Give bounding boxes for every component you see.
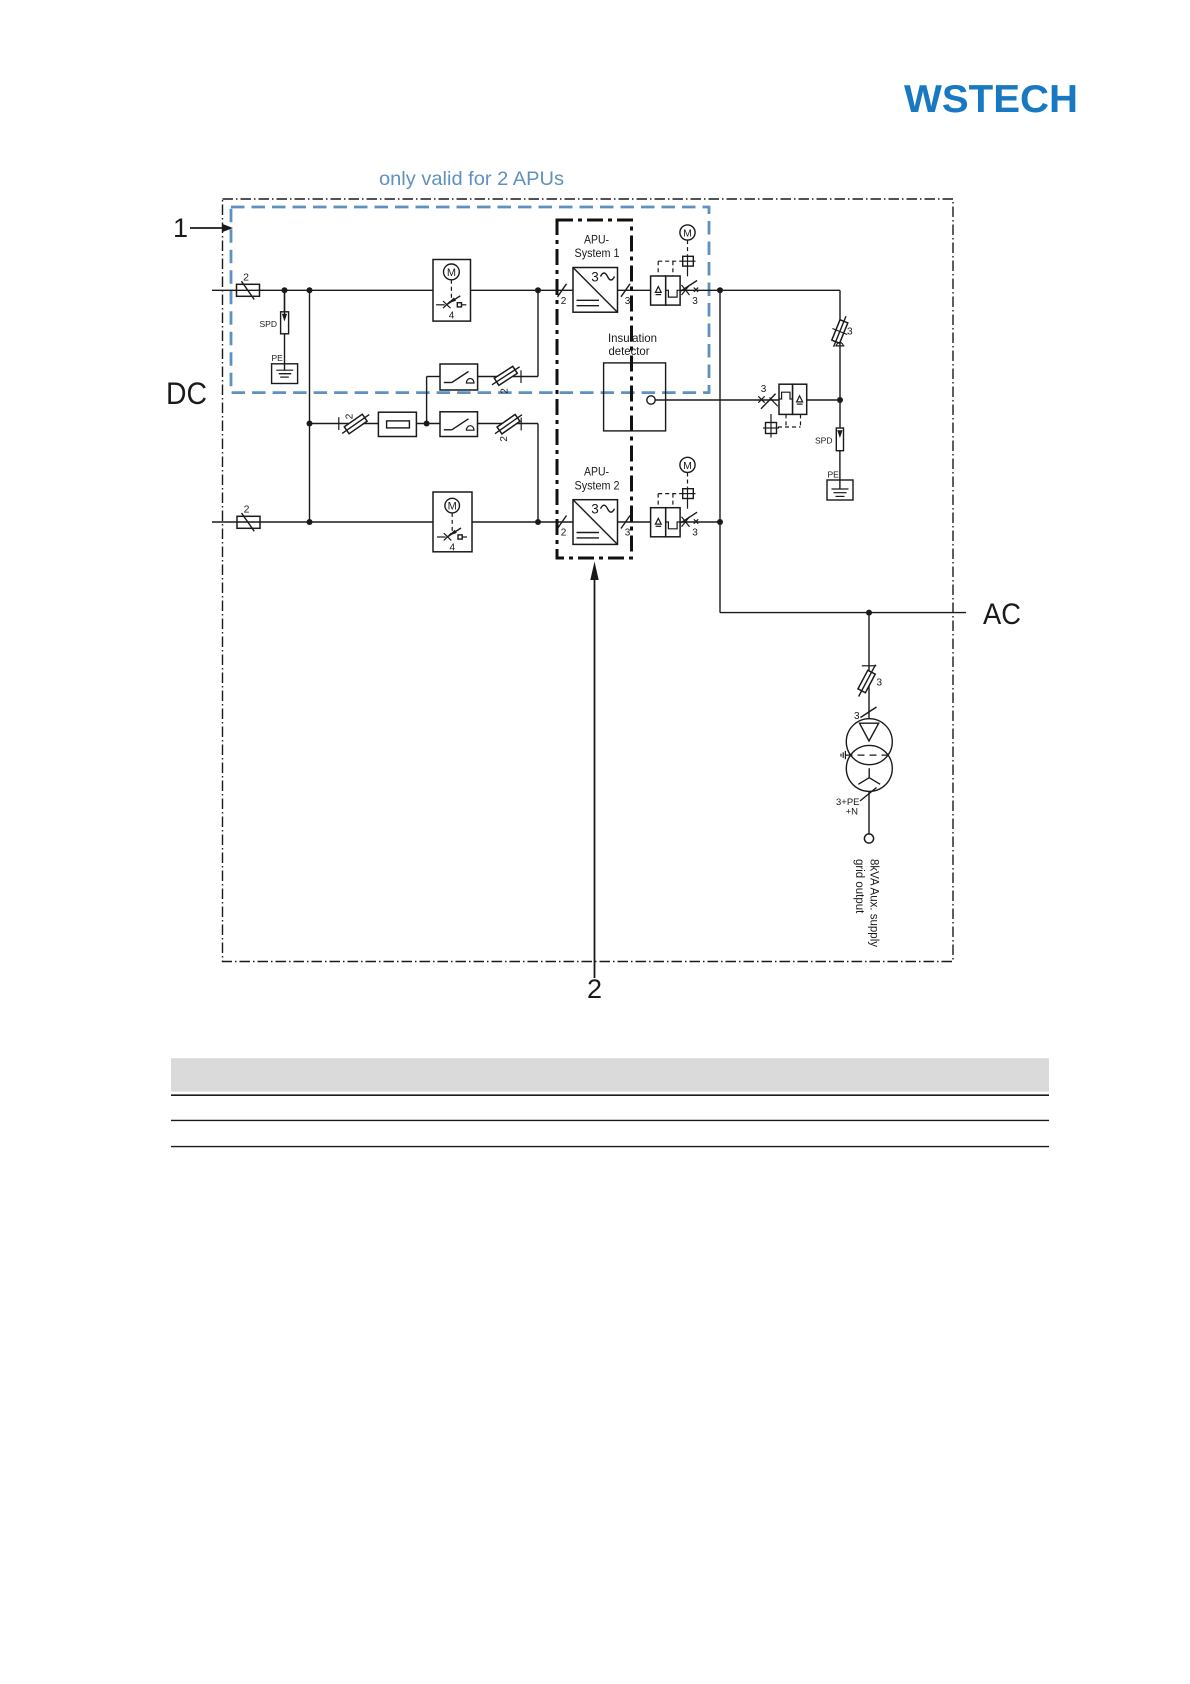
node DC+ / SPD tap <box>282 287 288 293</box>
svg-text:2: 2 <box>243 272 249 284</box>
breaker Q2a <box>681 512 698 539</box>
svg-text:2: 2 <box>587 974 602 1004</box>
wire dashed K2 link <box>658 494 680 508</box>
fuse F1 (2) <box>237 272 260 300</box>
node AC / aux tap <box>866 610 872 616</box>
pole mark 2 at U1 input <box>558 284 567 297</box>
svg-text:3: 3 <box>591 270 599 285</box>
svg-text:3: 3 <box>761 384 767 395</box>
svg-text:M: M <box>448 501 457 513</box>
wire DC+ bus <box>212 289 433 291</box>
protection relay K1 <box>651 276 681 305</box>
svg-text:2: 2 <box>345 413 356 419</box>
callout 2 arrow <box>594 578 596 978</box>
svg-text:2: 2 <box>244 503 250 515</box>
pole mark 3 at U1 output <box>621 284 630 297</box>
pole mark 3+PE+N <box>836 788 877 818</box>
svg-text:1: 1 <box>173 213 188 243</box>
svg-text:M: M <box>447 267 456 279</box>
svg-text:System 2: System 2 <box>575 478 620 492</box>
node AC side APU1 <box>717 287 723 293</box>
svg-text:3: 3 <box>625 296 631 307</box>
svg-text:2: 2 <box>561 296 567 307</box>
svg-text:M: M <box>683 228 692 240</box>
breaker Q3 (3) <box>758 384 777 409</box>
pole mark 2 at U2 input <box>558 516 567 529</box>
wire junction to SPD2 <box>839 400 841 428</box>
wire to aux terminal <box>868 791 870 834</box>
wire aux drop <box>868 613 870 719</box>
wire rail to DC- bus <box>309 290 311 522</box>
protection relay K3 <box>779 384 807 414</box>
wire dashed M1 link <box>687 240 689 255</box>
node row B / row A tap <box>424 421 430 427</box>
node measurement bus junction <box>837 397 843 403</box>
transformer T1 <box>841 719 894 792</box>
svg-text:4: 4 <box>450 543 456 554</box>
filter Z1 <box>378 412 416 436</box>
motor drive M2 <box>680 457 695 472</box>
wire DC- bus <box>212 521 433 523</box>
fuse FB2 (2) <box>493 411 525 441</box>
svg-text:PE: PE <box>828 470 840 480</box>
svg-text:3: 3 <box>847 327 853 338</box>
surge arrester SPD1 <box>260 290 289 334</box>
wire branch row B <box>310 423 379 425</box>
svg-text:PE: PE <box>272 353 284 363</box>
wire dashed K1 link <box>658 261 680 276</box>
svg-text:+N: +N <box>846 807 859 818</box>
position switch S2 <box>680 487 696 509</box>
svg-text:DC: DC <box>166 375 207 411</box>
svg-text:AC: AC <box>983 598 1021 631</box>
svg-text:only valid for 2 APUs: only valid for 2 APUs <box>379 168 564 190</box>
table rule 1 <box>171 1094 1049 1096</box>
svg-text:SPD: SPD <box>260 319 277 329</box>
fuse FA (2) <box>490 363 522 393</box>
svg-text:2: 2 <box>499 436 510 442</box>
ground PE2 <box>827 470 853 501</box>
APU group box (dash-dot) <box>557 220 632 558</box>
svg-text:2: 2 <box>561 528 567 539</box>
motorized disconnect Q2 <box>433 492 472 554</box>
svg-text:3: 3 <box>692 528 698 539</box>
node DC+ / rail tap <box>307 287 313 293</box>
svg-text:APU-: APU- <box>584 232 609 246</box>
protection relay K2 <box>651 508 681 537</box>
svg-text:3: 3 <box>591 502 599 517</box>
table header bar <box>171 1058 1049 1091</box>
svg-text:8kVA Aux. supplygrid output: 8kVA Aux. supplygrid output <box>853 859 880 947</box>
wire AC bus vertical <box>719 290 721 612</box>
svg-text:SPD: SPD <box>815 436 832 446</box>
svg-text:APU-: APU- <box>584 465 609 479</box>
breaker Q1a <box>681 281 698 308</box>
fuse F2 (2) <box>237 503 260 531</box>
node DC- / branch tap <box>535 519 541 525</box>
terminal of insulation detector <box>647 396 655 404</box>
inverter U2 <box>573 500 618 545</box>
fuse F5 (3) with striker <box>826 313 853 350</box>
terminal aux output <box>864 834 873 843</box>
position switch S1 <box>680 255 696 276</box>
svg-text:System 1: System 1 <box>575 246 620 260</box>
pole mark 3 at U2 output <box>621 516 630 529</box>
node AC side APU2 <box>717 519 723 525</box>
svg-text:detector: detector <box>609 344 650 358</box>
wire measurement bus <box>655 399 779 401</box>
insulation detector box <box>604 363 666 431</box>
contactor KA (row A) <box>440 364 478 390</box>
wire dashed M2 link <box>687 473 689 488</box>
wire AC output line <box>720 612 966 614</box>
callout 1 arrow <box>190 227 224 229</box>
table rule 2 <box>171 1119 1049 1121</box>
svg-text:WSTECH: WSTECH <box>904 78 1078 121</box>
wire down to AC aux fuse <box>839 290 841 400</box>
motorized disconnect Q1 <box>433 260 471 322</box>
surge arrester SPD2 <box>815 428 843 451</box>
svg-text:3: 3 <box>877 678 883 689</box>
svg-text:2: 2 <box>500 388 511 394</box>
wire arrester to PE <box>284 334 286 370</box>
wire SPD drop <box>284 290 286 311</box>
svg-text:3: 3 <box>625 528 631 539</box>
position switch S3 <box>763 414 779 438</box>
table rule 3 <box>171 1146 1049 1148</box>
svg-text:M: M <box>683 460 692 472</box>
inverter U1 <box>573 268 618 313</box>
motor drive M1 <box>680 225 695 240</box>
blue dashed group box: valid for 2 APUs <box>231 207 709 393</box>
node DC- / rail tap <box>307 519 313 525</box>
svg-text:3: 3 <box>692 296 698 307</box>
wire branch row A <box>427 376 440 378</box>
enclosure border (dash-dot) <box>223 199 954 962</box>
contactor KB (row B) <box>440 412 478 437</box>
node row B tap <box>307 421 313 427</box>
fuse F6 (3) with disconnect <box>855 663 883 699</box>
switch aux (3) <box>854 707 877 722</box>
wire dashed K3 link <box>778 414 801 427</box>
ground PE1 <box>272 353 298 384</box>
fuse FB1 (2) <box>339 411 372 437</box>
svg-text:4: 4 <box>449 311 455 322</box>
wire arrester2 to PE <box>839 451 841 489</box>
node DC+ / branch tap <box>535 287 541 293</box>
